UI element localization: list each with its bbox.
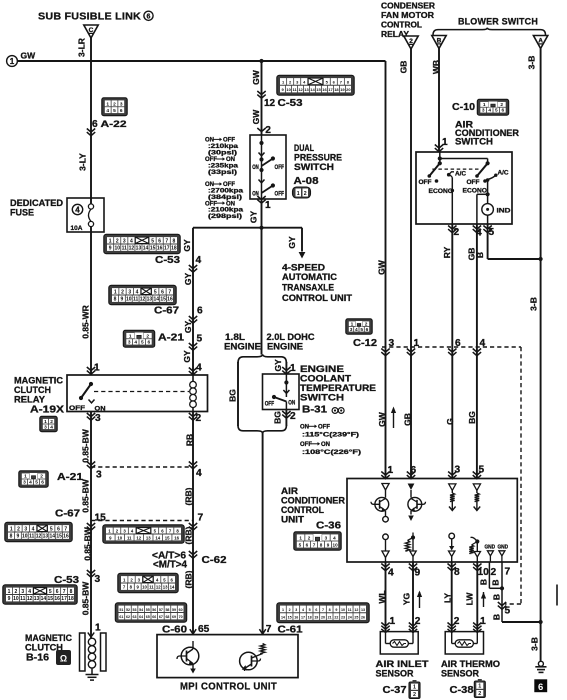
svg-text:(RB): (RB) bbox=[184, 526, 194, 544]
svg-text:AUTOMATIC: AUTOMATIC bbox=[282, 272, 337, 283]
svg-text:1: 1 bbox=[413, 685, 416, 691]
svg-text:9: 9 bbox=[109, 246, 112, 252]
svg-text:LY: LY bbox=[443, 593, 453, 603]
svg-text:A-19X: A-19X bbox=[30, 405, 64, 416]
svg-text:1: 1 bbox=[95, 623, 101, 634]
svg-text:9: 9 bbox=[335, 608, 337, 612]
svg-text:OFF: OFF bbox=[205, 157, 217, 163]
svg-text:5: 5 bbox=[299, 542, 302, 547]
svg-text:8: 8 bbox=[114, 297, 117, 303]
svg-text:11: 11 bbox=[133, 297, 139, 303]
svg-text:5: 5 bbox=[309, 608, 311, 612]
svg-text:15: 15 bbox=[288, 616, 292, 620]
svg-text:15: 15 bbox=[48, 596, 54, 602]
svg-text:B: B bbox=[492, 594, 502, 600]
svg-text:0.85-BW: 0.85-BW bbox=[81, 428, 91, 463]
svg-text:5: 5 bbox=[49, 589, 52, 595]
svg-text:A-08: A-08 bbox=[294, 175, 319, 187]
svg-text:3: 3 bbox=[128, 289, 131, 295]
svg-text:SWITCH: SWITCH bbox=[300, 393, 344, 404]
svg-text:25: 25 bbox=[354, 616, 358, 620]
svg-text:(30psi): (30psi) bbox=[208, 151, 237, 157]
svg-text:15: 15 bbox=[160, 297, 166, 303]
svg-text:GW: GW bbox=[377, 259, 387, 275]
svg-text:7: 7 bbox=[505, 567, 511, 578]
svg-text:3: 3 bbox=[24, 526, 27, 532]
svg-text:16: 16 bbox=[174, 535, 179, 540]
svg-text:2: 2 bbox=[116, 238, 119, 244]
svg-text:C-36: C-36 bbox=[316, 520, 341, 532]
svg-text:11: 11 bbox=[20, 596, 26, 602]
svg-text:2: 2 bbox=[113, 101, 116, 107]
svg-text:CONTROL UNIT: CONTROL UNIT bbox=[282, 293, 352, 304]
svg-text:G: G bbox=[445, 418, 455, 425]
svg-text:3-LR: 3-LR bbox=[77, 38, 87, 57]
svg-text:59: 59 bbox=[172, 608, 176, 612]
svg-text:3: 3 bbox=[21, 589, 24, 595]
svg-text:4: 4 bbox=[480, 338, 486, 349]
svg-text:12: 12 bbox=[298, 87, 303, 92]
svg-text:16: 16 bbox=[167, 297, 173, 303]
svg-text:63: 63 bbox=[133, 615, 137, 619]
svg-text:7: 7 bbox=[198, 513, 204, 524]
svg-text:17: 17 bbox=[301, 616, 305, 620]
svg-text:4: 4 bbox=[302, 608, 304, 612]
svg-text:6: 6 bbox=[120, 108, 123, 114]
svg-text:A/C: A/C bbox=[455, 171, 467, 178]
svg-text:13: 13 bbox=[136, 246, 142, 252]
svg-text:OFF: OFF bbox=[467, 179, 480, 186]
svg-text:12: 12 bbox=[264, 98, 276, 109]
svg-text:10: 10 bbox=[13, 596, 19, 602]
svg-text:4: 4 bbox=[333, 535, 336, 540]
svg-text:23: 23 bbox=[341, 616, 345, 620]
svg-text:Ω: Ω bbox=[60, 654, 67, 664]
svg-text:3: 3 bbox=[95, 413, 101, 424]
svg-text:4: 4 bbox=[50, 424, 53, 430]
svg-text:11: 11 bbox=[29, 534, 35, 540]
svg-text:OFF: OFF bbox=[275, 192, 285, 198]
svg-text:OFF: OFF bbox=[275, 165, 285, 171]
svg-text:C-62: C-62 bbox=[202, 555, 227, 566]
svg-text:13: 13 bbox=[304, 87, 309, 92]
svg-text:67: 67 bbox=[159, 615, 163, 619]
svg-text:13: 13 bbox=[43, 534, 49, 540]
svg-text:GW: GW bbox=[377, 411, 387, 427]
svg-text:17: 17 bbox=[328, 87, 333, 92]
svg-text:5: 5 bbox=[151, 238, 154, 244]
svg-text:3: 3 bbox=[120, 101, 123, 107]
svg-text:1: 1 bbox=[351, 321, 354, 327]
svg-text:3: 3 bbox=[95, 574, 101, 585]
svg-text:2: 2 bbox=[289, 608, 291, 612]
svg-text:OFF: OFF bbox=[223, 138, 235, 144]
svg-text:3: 3 bbox=[350, 327, 353, 333]
svg-text:BG: BG bbox=[467, 411, 477, 424]
svg-text:CONTROL: CONTROL bbox=[381, 21, 422, 30]
svg-text:LW: LW bbox=[465, 592, 475, 606]
svg-text::235kpa: :235kpa bbox=[208, 164, 239, 170]
svg-text:A-22: A-22 bbox=[101, 119, 127, 130]
svg-text:1: 1 bbox=[388, 465, 394, 476]
svg-text:12: 12 bbox=[129, 246, 135, 252]
svg-text:7: 7 bbox=[64, 526, 67, 532]
svg-text:1: 1 bbox=[483, 102, 486, 108]
svg-text:16: 16 bbox=[322, 87, 327, 92]
svg-text:GY: GY bbox=[273, 359, 283, 372]
svg-text:2: 2 bbox=[40, 474, 43, 480]
svg-text:OFF: OFF bbox=[419, 179, 432, 186]
svg-text:3: 3 bbox=[44, 424, 47, 430]
svg-text:4: 4 bbox=[136, 289, 139, 295]
svg-text:OFF: OFF bbox=[300, 442, 312, 448]
svg-text:4: 4 bbox=[75, 205, 80, 214]
svg-text:SWITCH: SWITCH bbox=[455, 137, 493, 147]
svg-text:18: 18 bbox=[171, 246, 177, 252]
svg-text:21: 21 bbox=[328, 616, 332, 620]
svg-text:17: 17 bbox=[164, 246, 170, 252]
svg-text:(33psi): (33psi) bbox=[208, 170, 237, 176]
svg-text:8: 8 bbox=[10, 534, 13, 540]
svg-text:54: 54 bbox=[139, 608, 143, 612]
svg-text:2: 2 bbox=[17, 526, 20, 532]
svg-text:15: 15 bbox=[95, 513, 107, 524]
svg-text:4: 4 bbox=[32, 526, 35, 532]
svg-text:12: 12 bbox=[354, 608, 358, 612]
svg-text:6: 6 bbox=[57, 526, 60, 532]
svg-text:10: 10 bbox=[142, 585, 147, 590]
svg-text:OFF: OFF bbox=[265, 402, 275, 408]
svg-text:16: 16 bbox=[63, 534, 69, 540]
svg-text:0.85-WR: 0.85-WR bbox=[81, 305, 91, 339]
svg-text:ECONO: ECONO bbox=[463, 188, 488, 195]
svg-text:64: 64 bbox=[139, 615, 143, 619]
svg-text:6: 6 bbox=[147, 340, 150, 346]
svg-text:14: 14 bbox=[170, 585, 175, 590]
svg-text:3-B: 3-B bbox=[530, 637, 540, 651]
svg-text:2: 2 bbox=[500, 102, 503, 108]
svg-text:GW: GW bbox=[21, 51, 37, 61]
svg-text:70: 70 bbox=[179, 615, 183, 619]
svg-text:2: 2 bbox=[290, 411, 296, 422]
svg-text:5: 5 bbox=[495, 108, 498, 114]
svg-text:C-12: C-12 bbox=[353, 338, 377, 349]
svg-text:6: 6 bbox=[197, 306, 203, 317]
svg-text:18: 18 bbox=[334, 87, 339, 92]
svg-text:10: 10 bbox=[286, 87, 291, 92]
svg-text:56: 56 bbox=[152, 608, 156, 612]
svg-text:10: 10 bbox=[126, 297, 132, 303]
svg-text:15: 15 bbox=[165, 535, 170, 540]
svg-text:16: 16 bbox=[294, 616, 298, 620]
svg-text:OFF: OFF bbox=[223, 182, 235, 188]
svg-text:15: 15 bbox=[316, 87, 321, 92]
svg-text:2: 2 bbox=[491, 567, 497, 578]
svg-text:1: 1 bbox=[10, 526, 13, 532]
svg-text:TRANSAXLE: TRANSAXLE bbox=[282, 283, 334, 294]
svg-text:B-31: B-31 bbox=[302, 404, 327, 416]
svg-text:BLOWER SWITCH: BLOWER SWITCH bbox=[458, 17, 538, 28]
svg-text:15: 15 bbox=[56, 534, 62, 540]
svg-text:(RB): (RB) bbox=[184, 570, 194, 588]
svg-text:62: 62 bbox=[126, 615, 130, 619]
svg-text:13: 13 bbox=[34, 596, 40, 602]
svg-text:B: B bbox=[475, 252, 485, 258]
svg-text:C-38: C-38 bbox=[450, 684, 474, 696]
svg-text:5: 5 bbox=[154, 289, 157, 295]
svg-text:CONDITIONER: CONDITIONER bbox=[281, 496, 346, 506]
svg-text:B: B bbox=[491, 579, 501, 585]
svg-text:12: 12 bbox=[36, 534, 42, 540]
svg-text:10: 10 bbox=[341, 608, 345, 612]
svg-text:ON: ON bbox=[205, 182, 214, 188]
svg-text:7: 7 bbox=[168, 289, 171, 295]
svg-text:1: 1 bbox=[24, 474, 27, 480]
svg-text:C-10: C-10 bbox=[452, 101, 475, 113]
svg-text:8: 8 bbox=[172, 238, 175, 244]
svg-text:OFF: OFF bbox=[318, 425, 330, 431]
svg-text:6: 6 bbox=[366, 327, 369, 333]
svg-text:GY: GY bbox=[249, 211, 259, 224]
svg-text:ON: ON bbox=[288, 401, 295, 407]
svg-text:6: 6 bbox=[538, 682, 543, 693]
svg-text:BG: BG bbox=[273, 411, 283, 424]
svg-text:68: 68 bbox=[165, 615, 169, 619]
svg-text:51: 51 bbox=[119, 608, 123, 612]
svg-text:2: 2 bbox=[454, 616, 460, 627]
svg-text:CONTROL: CONTROL bbox=[281, 505, 324, 515]
svg-text:OFF: OFF bbox=[205, 201, 217, 207]
svg-text:1: 1 bbox=[290, 363, 296, 374]
svg-text:24: 24 bbox=[348, 616, 352, 620]
svg-text:5: 5 bbox=[360, 327, 363, 333]
svg-text:6: 6 bbox=[315, 608, 317, 612]
svg-text:5: 5 bbox=[113, 108, 116, 114]
svg-text:WL: WL bbox=[377, 590, 387, 603]
svg-text::2100kpa: :2100kpa bbox=[208, 208, 244, 214]
svg-text:20: 20 bbox=[346, 87, 351, 92]
svg-text:2: 2 bbox=[15, 589, 18, 595]
svg-text:8: 8 bbox=[320, 542, 323, 547]
svg-text:4: 4 bbox=[196, 255, 202, 266]
svg-text:1: 1 bbox=[282, 608, 284, 612]
svg-text:19: 19 bbox=[314, 616, 318, 620]
svg-text:8: 8 bbox=[329, 608, 331, 612]
svg-text:MPI CONTROL UNIT: MPI CONTROL UNIT bbox=[180, 682, 277, 693]
svg-text:ON: ON bbox=[300, 425, 309, 431]
svg-text:0.85-BW: 0.85-BW bbox=[81, 478, 91, 513]
svg-text:6: 6 bbox=[158, 238, 161, 244]
svg-text:1: 1 bbox=[44, 419, 47, 425]
svg-text:3: 3 bbox=[123, 238, 126, 244]
svg-text:A/C: A/C bbox=[498, 170, 510, 177]
svg-text:6: 6 bbox=[56, 589, 59, 595]
svg-text:A-21: A-21 bbox=[158, 333, 185, 344]
svg-text:2: 2 bbox=[50, 419, 53, 425]
svg-text:GY: GY bbox=[287, 236, 297, 249]
svg-text:ON: ON bbox=[226, 157, 235, 163]
svg-text:3: 3 bbox=[295, 608, 297, 612]
svg-text:UNIT: UNIT bbox=[281, 515, 305, 525]
svg-text:12: 12 bbox=[136, 535, 141, 540]
svg-text:52: 52 bbox=[126, 608, 130, 612]
svg-text:66: 66 bbox=[152, 615, 156, 619]
svg-text:13: 13 bbox=[147, 297, 153, 303]
svg-text:(RB): (RB) bbox=[184, 487, 194, 505]
svg-text:1: 1 bbox=[129, 333, 132, 339]
svg-text:0.85-BW: 0.85-BW bbox=[83, 526, 93, 561]
svg-text:14: 14 bbox=[153, 297, 159, 303]
svg-text:YG: YG bbox=[402, 592, 412, 605]
svg-text:65: 65 bbox=[198, 624, 210, 635]
svg-text:12: 12 bbox=[27, 596, 33, 602]
svg-text:2: 2 bbox=[121, 289, 124, 295]
svg-text:14: 14 bbox=[310, 87, 315, 92]
svg-text:4: 4 bbox=[29, 480, 32, 486]
svg-text:57: 57 bbox=[159, 608, 163, 612]
svg-text:C-67: C-67 bbox=[154, 306, 179, 317]
svg-text:CONDENSER: CONDENSER bbox=[381, 2, 435, 11]
svg-text:B: B bbox=[479, 579, 489, 585]
svg-text:GB: GB bbox=[403, 413, 413, 426]
svg-text:ENGINE: ENGINE bbox=[224, 342, 261, 353]
svg-text:7: 7 bbox=[165, 238, 168, 244]
svg-text::210kpa: :210kpa bbox=[208, 144, 239, 150]
svg-text:10: 10 bbox=[22, 534, 28, 540]
svg-text:2: 2 bbox=[415, 616, 421, 627]
svg-text:6: 6 bbox=[501, 108, 504, 114]
svg-text:16: 16 bbox=[157, 246, 163, 252]
svg-text:6: 6 bbox=[455, 338, 461, 349]
svg-text:6: 6 bbox=[41, 480, 44, 486]
svg-text:5: 5 bbox=[505, 606, 511, 617]
svg-text:C-37: C-37 bbox=[383, 684, 407, 696]
svg-text:2: 2 bbox=[413, 692, 416, 698]
svg-text:1: 1 bbox=[114, 289, 117, 295]
svg-text:3: 3 bbox=[23, 480, 26, 486]
svg-text:4: 4 bbox=[355, 327, 358, 333]
svg-text:18: 18 bbox=[68, 596, 74, 602]
svg-text:60: 60 bbox=[179, 608, 183, 612]
svg-text:53: 53 bbox=[133, 608, 137, 612]
svg-text:13: 13 bbox=[163, 585, 168, 590]
svg-text:14: 14 bbox=[281, 616, 285, 620]
svg-text:5: 5 bbox=[489, 227, 495, 238]
svg-text:<M/T>4: <M/T>4 bbox=[153, 560, 187, 571]
svg-text:SWITCH: SWITCH bbox=[294, 162, 334, 173]
svg-text:GND: GND bbox=[485, 545, 496, 551]
svg-text:5: 5 bbox=[197, 334, 203, 345]
svg-text:SUB FUSIBLE LINK: SUB FUSIBLE LINK bbox=[38, 12, 142, 23]
svg-text:8: 8 bbox=[70, 589, 73, 595]
svg-text:C-67: C-67 bbox=[55, 509, 80, 520]
svg-text:3: 3 bbox=[128, 340, 131, 346]
svg-text:12: 12 bbox=[156, 585, 161, 590]
svg-text:FAN MOTOR: FAN MOTOR bbox=[381, 11, 434, 20]
svg-text:13: 13 bbox=[146, 535, 151, 540]
svg-text:IND: IND bbox=[497, 208, 512, 215]
svg-text:3: 3 bbox=[389, 338, 395, 349]
svg-text:RB: RB bbox=[185, 434, 195, 446]
svg-text:7: 7 bbox=[63, 589, 66, 595]
svg-text:GY: GY bbox=[183, 321, 193, 334]
svg-text:C-53: C-53 bbox=[278, 98, 303, 109]
svg-text:3-B: 3-B bbox=[529, 297, 539, 311]
svg-text:4: 4 bbox=[196, 468, 202, 479]
svg-text:(384psi): (384psi) bbox=[208, 195, 242, 201]
svg-text:WB: WB bbox=[431, 60, 441, 74]
svg-text:ON: ON bbox=[95, 406, 107, 413]
svg-text:7: 7 bbox=[313, 542, 316, 547]
svg-text:B-16: B-16 bbox=[26, 653, 49, 664]
svg-text:26: 26 bbox=[361, 616, 365, 620]
svg-text:1: 1 bbox=[414, 338, 420, 349]
svg-text:7: 7 bbox=[322, 608, 324, 612]
svg-text:5: 5 bbox=[141, 340, 144, 346]
svg-text:19: 19 bbox=[340, 87, 345, 92]
svg-text:ECONO: ECONO bbox=[429, 188, 454, 195]
svg-text:GY: GY bbox=[182, 350, 192, 363]
svg-text:17: 17 bbox=[61, 596, 67, 602]
svg-text:ON: ON bbox=[321, 442, 330, 448]
svg-text:65: 65 bbox=[146, 615, 150, 619]
svg-text:14: 14 bbox=[49, 534, 55, 540]
svg-text:10: 10 bbox=[333, 542, 339, 547]
svg-text:ON: ON bbox=[205, 138, 214, 144]
svg-text:ON: ON bbox=[252, 165, 258, 171]
svg-text:6: 6 bbox=[306, 542, 309, 547]
svg-text:A-21: A-21 bbox=[57, 472, 84, 483]
svg-text:GND: GND bbox=[498, 545, 509, 551]
svg-text:1: 1 bbox=[299, 535, 302, 540]
svg-text:1: 1 bbox=[109, 238, 112, 244]
svg-text:9: 9 bbox=[8, 596, 11, 602]
svg-text:3-LY: 3-LY bbox=[78, 153, 88, 171]
svg-text:9: 9 bbox=[17, 534, 20, 540]
svg-text:2: 2 bbox=[478, 691, 481, 697]
svg-text:SENSOR: SENSOR bbox=[376, 669, 414, 680]
svg-text:0.85-BW: 0.85-BW bbox=[81, 581, 91, 616]
svg-text:10A: 10A bbox=[71, 225, 83, 232]
svg-text:14: 14 bbox=[143, 246, 149, 252]
svg-text:3-B: 3-B bbox=[527, 56, 537, 70]
svg-text:10: 10 bbox=[114, 246, 120, 252]
svg-text:18: 18 bbox=[308, 616, 312, 620]
svg-text:5: 5 bbox=[50, 526, 53, 532]
svg-text:1: 1 bbox=[106, 101, 109, 107]
svg-text:GW: GW bbox=[251, 109, 261, 125]
svg-text:6: 6 bbox=[147, 13, 151, 20]
svg-text:1: 1 bbox=[265, 200, 271, 211]
svg-text:GY: GY bbox=[182, 239, 192, 252]
svg-text:1: 1 bbox=[10, 57, 15, 66]
svg-text:4: 4 bbox=[130, 238, 133, 244]
svg-text:3: 3 bbox=[96, 470, 102, 481]
svg-text:1: 1 bbox=[297, 191, 300, 197]
svg-text:4: 4 bbox=[106, 108, 109, 114]
svg-text:1: 1 bbox=[478, 684, 481, 690]
svg-text:GW: GW bbox=[251, 69, 261, 85]
svg-text:RY: RY bbox=[442, 246, 452, 258]
svg-text:2: 2 bbox=[304, 191, 307, 197]
svg-text:61: 61 bbox=[119, 615, 123, 619]
svg-text:ON: ON bbox=[226, 201, 235, 207]
svg-text:GY: GY bbox=[183, 273, 193, 286]
svg-text:10: 10 bbox=[117, 535, 122, 540]
svg-text:7: 7 bbox=[266, 624, 272, 635]
svg-text:11: 11 bbox=[127, 535, 132, 540]
svg-text:9: 9 bbox=[121, 297, 124, 303]
